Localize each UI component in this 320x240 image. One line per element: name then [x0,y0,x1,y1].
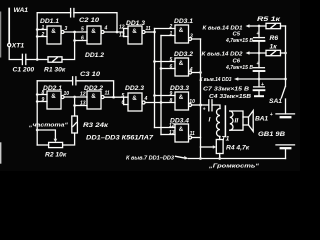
svg-text:9: 9 [42,97,45,103]
resistor R6 [266,35,286,56]
wire bus3 to C4 [201,105,209,113]
label gromkost [208,164,259,170]
svg-text:+: + [270,112,273,118]
svg-text:5: 5 [170,57,173,63]
svg-text:С4 33мк×15В: С4 33мк×15В [209,94,252,100]
wire DD1.1 out to DD1.2 [64,31,87,33]
svg-text:„частота“: „частота“ [28,123,68,129]
svg-text:DD1.3: DD1.3 [126,20,145,27]
svg-text:&: & [179,126,184,133]
svg-text:DD3.1: DD3.1 [174,18,193,25]
gate DD3.2 [155,51,201,76]
svg-text:С5: С5 [233,31,241,37]
svg-text:XT1: XT1 [11,43,25,50]
wire winding II to speaker [230,111,243,130]
svg-text:WA1: WA1 [14,7,29,14]
gate DD1.3 [119,20,151,44]
supply bus right vertical [284,26,287,87]
svg-text:+: + [256,61,259,67]
capacitor C6 [225,53,264,79]
antenna WA1 [9,7,28,43]
wire DD2.1 out to DD2.2 and R3 riser [64,96,87,116]
svg-text:12: 12 [119,25,125,31]
gate DD2.1 [37,85,69,109]
svg-text:&: & [51,28,56,35]
transformer T1 winding II [230,111,239,130]
wire C4 to T1 [212,105,220,109]
common rail wire [189,157,286,160]
svg-text:&: & [51,93,56,100]
svg-text:&: & [91,93,96,100]
resistor R1 [44,57,66,74]
svg-text:10: 10 [64,91,70,97]
svg-text:+: + [203,107,206,113]
svg-text:DD3.3: DD3.3 [170,85,189,92]
svg-text:13: 13 [80,101,86,107]
svg-text:DD1.2: DD1.2 [85,52,104,59]
wire bus3 down to R4 wiper and rail [201,145,217,158]
svg-text:12: 12 [80,92,86,98]
svg-text:4,7мк×15 В: 4,7мк×15 В [225,38,253,44]
wire XT1 to C1 [9,47,22,60]
svg-text:II: II [235,118,239,125]
node B supply DD2 [202,51,267,57]
wire top to C2 [37,12,70,14]
node A supply DD1 [203,24,267,31]
svg-text:DD2.1: DD2.1 [43,85,62,92]
wire DD1.2 out to DD1.3 [104,29,128,37]
svg-text:+: + [256,31,259,37]
connector XT1 [8,43,25,50]
svg-text:DD2.3: DD2.3 [125,85,144,92]
resistor R3 [72,116,109,133]
capacitor C5 [225,26,264,53]
svg-text:11: 11 [146,26,151,32]
label chastota [28,123,68,129]
svg-text:&: & [132,28,137,35]
node bus1 from DD1.3 [153,29,156,128]
node bus2 from DD2.3 [160,36,163,135]
svg-text:DD3.4: DD3.4 [170,118,189,125]
svg-text:1к: 1к [270,44,278,51]
battery GB1 [258,112,295,159]
svg-text:5: 5 [122,93,125,99]
label C7 value [203,87,250,93]
svg-text:6: 6 [81,36,84,42]
node C supply DD3 [200,77,287,83]
scan edge artifact left bottom [0,143,2,163]
svg-text:&: & [132,95,137,102]
svg-text:„Громкость“: „Громкость“ [208,164,259,170]
potentiometer R2 [37,130,67,159]
label T1 [222,136,230,143]
wire node W input bus vertical [36,13,39,60]
wire C2 to node Y with drop [74,13,118,34]
svg-text:DD3.2: DD3.2 [174,51,193,58]
gate DD1.2 [75,26,108,60]
op-amp gate DD1.1 [37,18,67,44]
wire R1 to node X riser [62,31,76,60]
svg-text:R2 10к: R2 10к [45,152,67,159]
svg-text:R4 4,7к: R4 4,7к [226,145,250,152]
wire DD2.2 out to DD2.3 [104,97,128,104]
svg-text:4: 4 [144,96,148,102]
svg-text:&: & [91,28,96,35]
svg-text:DD2.2: DD2.2 [84,85,103,92]
rail arrow to pin 7 [126,156,189,162]
svg-text:5: 5 [81,27,84,33]
svg-text:DD1–DD3 К561ЛА7: DD1–DD3 К561ЛА7 [86,135,153,142]
svg-text:10: 10 [189,99,195,105]
svg-text:2: 2 [41,32,45,38]
resistor R5 [257,16,286,29]
svg-text:DD1.1: DD1.1 [40,18,59,25]
capacitor C2 [71,9,100,24]
scan edge artifact left top [0,12,2,57]
svg-text:&: & [179,94,184,101]
common symbol under C7 [255,95,263,97]
wire node W2 input bus vertical [36,81,39,145]
svg-text:11: 11 [190,131,195,137]
gate DD3.3 [155,85,201,110]
svg-text:К выв.7 DD1–DD3: К выв.7 DD1–DD3 [126,156,175,162]
wire C1 to node W and R1 [26,59,48,61]
svg-text:3: 3 [65,26,68,32]
capacitor C4 [209,94,252,111]
svg-text:R1 30к: R1 30к [44,67,66,74]
capacitor C3 [73,71,101,85]
svg-text:8: 8 [170,98,173,104]
svg-text:С7 33мк×15 В: С7 33мк×15 В [203,87,250,93]
wire row2 top right with drop to node Y2 [76,81,115,99]
gate DD3.4 [155,118,201,143]
gate DD2.3 [122,85,148,111]
svg-text:13: 13 [119,33,125,39]
svg-text:R6: R6 [270,35,279,42]
switch SA1 [269,87,286,114]
svg-text:С6: С6 [233,58,241,64]
gate DD3.1 [155,18,201,43]
svg-text:&: & [179,60,184,67]
svg-text:6: 6 [122,100,125,106]
svg-text:ВА1: ВА1 [255,116,268,123]
svg-text:4,7мк×15 В: 4,7мк×15 В [225,65,253,71]
transformer T1 winding I [209,109,221,137]
transformer T1 core [224,106,226,137]
gate DD2.2 [75,85,110,109]
svg-text:1: 1 [42,25,45,31]
capacitor C1 [13,54,35,73]
node bus3 outputs [199,39,202,147]
svg-text:&: & [179,27,184,34]
svg-text:SA1: SA1 [269,98,282,105]
node W junction [36,58,39,61]
svg-text:2: 2 [169,24,173,30]
speaker BA1 [243,111,268,132]
svg-text:1: 1 [170,31,173,37]
svg-text:R3 24к: R3 24к [83,122,109,129]
svg-text:11: 11 [105,91,110,97]
svg-text:C3 10: C3 10 [80,71,100,78]
svg-text:К выв.14 DD2: К выв.14 DD2 [202,52,244,58]
svg-text:I: I [209,117,211,124]
capacitor C7 [254,79,265,95]
wire DD2.3 out to bus2 and DD3.3 input [145,101,175,104]
svg-text:К выв.14 DD3: К выв.14 DD3 [200,77,233,83]
svg-text:GB1 9В: GB1 9В [258,131,285,138]
wire DD1.3 out to bus1 [145,31,156,34]
svg-text:4: 4 [104,26,108,32]
wire R3 bottom to R2 [63,133,75,145]
svg-text:C1 200: C1 200 [13,67,35,74]
svg-text:C2 10: C2 10 [79,17,99,24]
svg-text:R5 1к: R5 1к [257,16,281,23]
wire row2 top left [37,80,72,82]
svg-text:13: 13 [169,130,175,136]
potentiometer R4 [216,137,249,159]
svg-text:6: 6 [170,64,173,70]
label DD1-DD3 K561LA7 [86,135,153,142]
